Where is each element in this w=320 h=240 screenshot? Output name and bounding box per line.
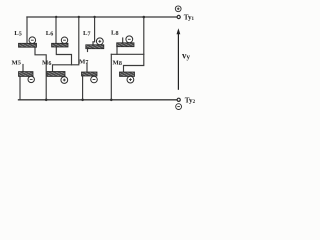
svg-text:M7: M7 (79, 59, 88, 66)
svg-text:vy: vy (182, 50, 191, 61)
svg-text:Ty2: Ty2 (185, 96, 196, 105)
svg-text:L5: L5 (14, 30, 22, 37)
svg-text:L8: L8 (111, 30, 119, 37)
svg-text:M5: M5 (12, 59, 21, 66)
svg-text:L6: L6 (46, 30, 54, 37)
svg-text:L7: L7 (83, 30, 91, 37)
svg-text:M8: M8 (113, 60, 122, 67)
svg-text:Ty1: Ty1 (184, 14, 195, 23)
svg-text:M6: M6 (42, 60, 51, 67)
